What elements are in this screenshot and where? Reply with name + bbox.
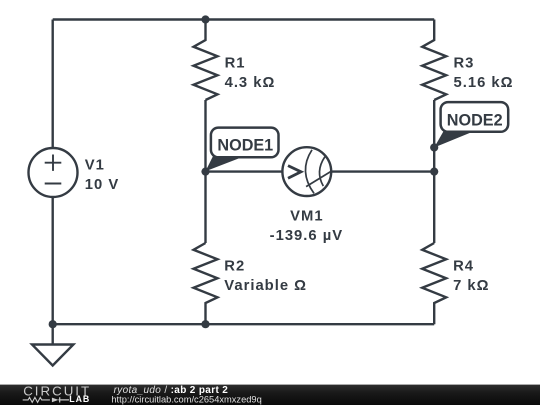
junction dot VM wire / right rail [430,168,438,176]
svg-text:R3: R3 [454,56,475,72]
junction dot R2 / bottom rail [201,320,209,328]
label V1 value [85,158,119,194]
label VM1 value [270,209,343,244]
svg-text:R4: R4 [453,259,474,275]
label R3 value [454,56,514,92]
wire VM1 right (voltmeter to NODE2 branch) [322,170,434,172]
node NODE1 flag [206,128,279,172]
svg-text:10 V: 10 V [85,177,119,193]
resistor R3 [422,20,446,101]
resistor R1 [194,20,218,101]
wire ground lead [52,324,54,344]
node NODE1 junction dot [201,168,209,176]
voltmeter VM1 [282,147,331,196]
CircuitLab logo [23,384,91,405]
wire VM1 left (NODE1 to voltmeter) [206,170,293,172]
svg-text:R1: R1 [225,56,246,72]
svg-text:4.3 kΩ: 4.3 kΩ [225,75,276,91]
svg-text:-139.6 µV: -139.6 µV [270,228,343,244]
svg-text:LAB: LAB [69,394,90,404]
svg-text:V1: V1 [85,158,105,174]
voltage source V1 [29,148,78,197]
wire left rail (V1 branch) [52,20,54,325]
node NODE2 flag [434,102,508,147]
wire R3 to R4 (NODE2 branch) [433,100,435,243]
node NODE2 dot [430,143,438,151]
wire NODE1 to R2 [204,172,206,243]
label R2 value [224,259,307,295]
wire bottom rail [53,323,435,325]
junction dot top (R1/top rail) [201,15,209,23]
resistor R4 [422,243,446,324]
label R4 value [453,259,489,295]
svg-text:R2: R2 [224,259,245,275]
footer bar [0,385,540,405]
svg-text:NODE2: NODE2 [447,112,503,130]
footer title text [111,385,261,404]
label R1 value [225,56,276,92]
svg-text:7 kΩ: 7 kΩ [453,278,489,294]
svg-text:5.16 kΩ: 5.16 kΩ [454,75,514,91]
svg-text:http://circuitlab.com/c2654xmx: http://circuitlab.com/c2654xmxzed9q [111,394,261,404]
svg-text:VM1: VM1 [290,209,323,225]
ground [32,345,73,366]
svg-text:Variable Ω: Variable Ω [224,278,307,294]
wire R1 to NODE1 [204,100,206,172]
junction dot ground / bottom rail [49,320,57,328]
svg-text:NODE1: NODE1 [217,137,273,155]
resistor R2 [194,243,218,324]
wire top rail [53,18,435,20]
